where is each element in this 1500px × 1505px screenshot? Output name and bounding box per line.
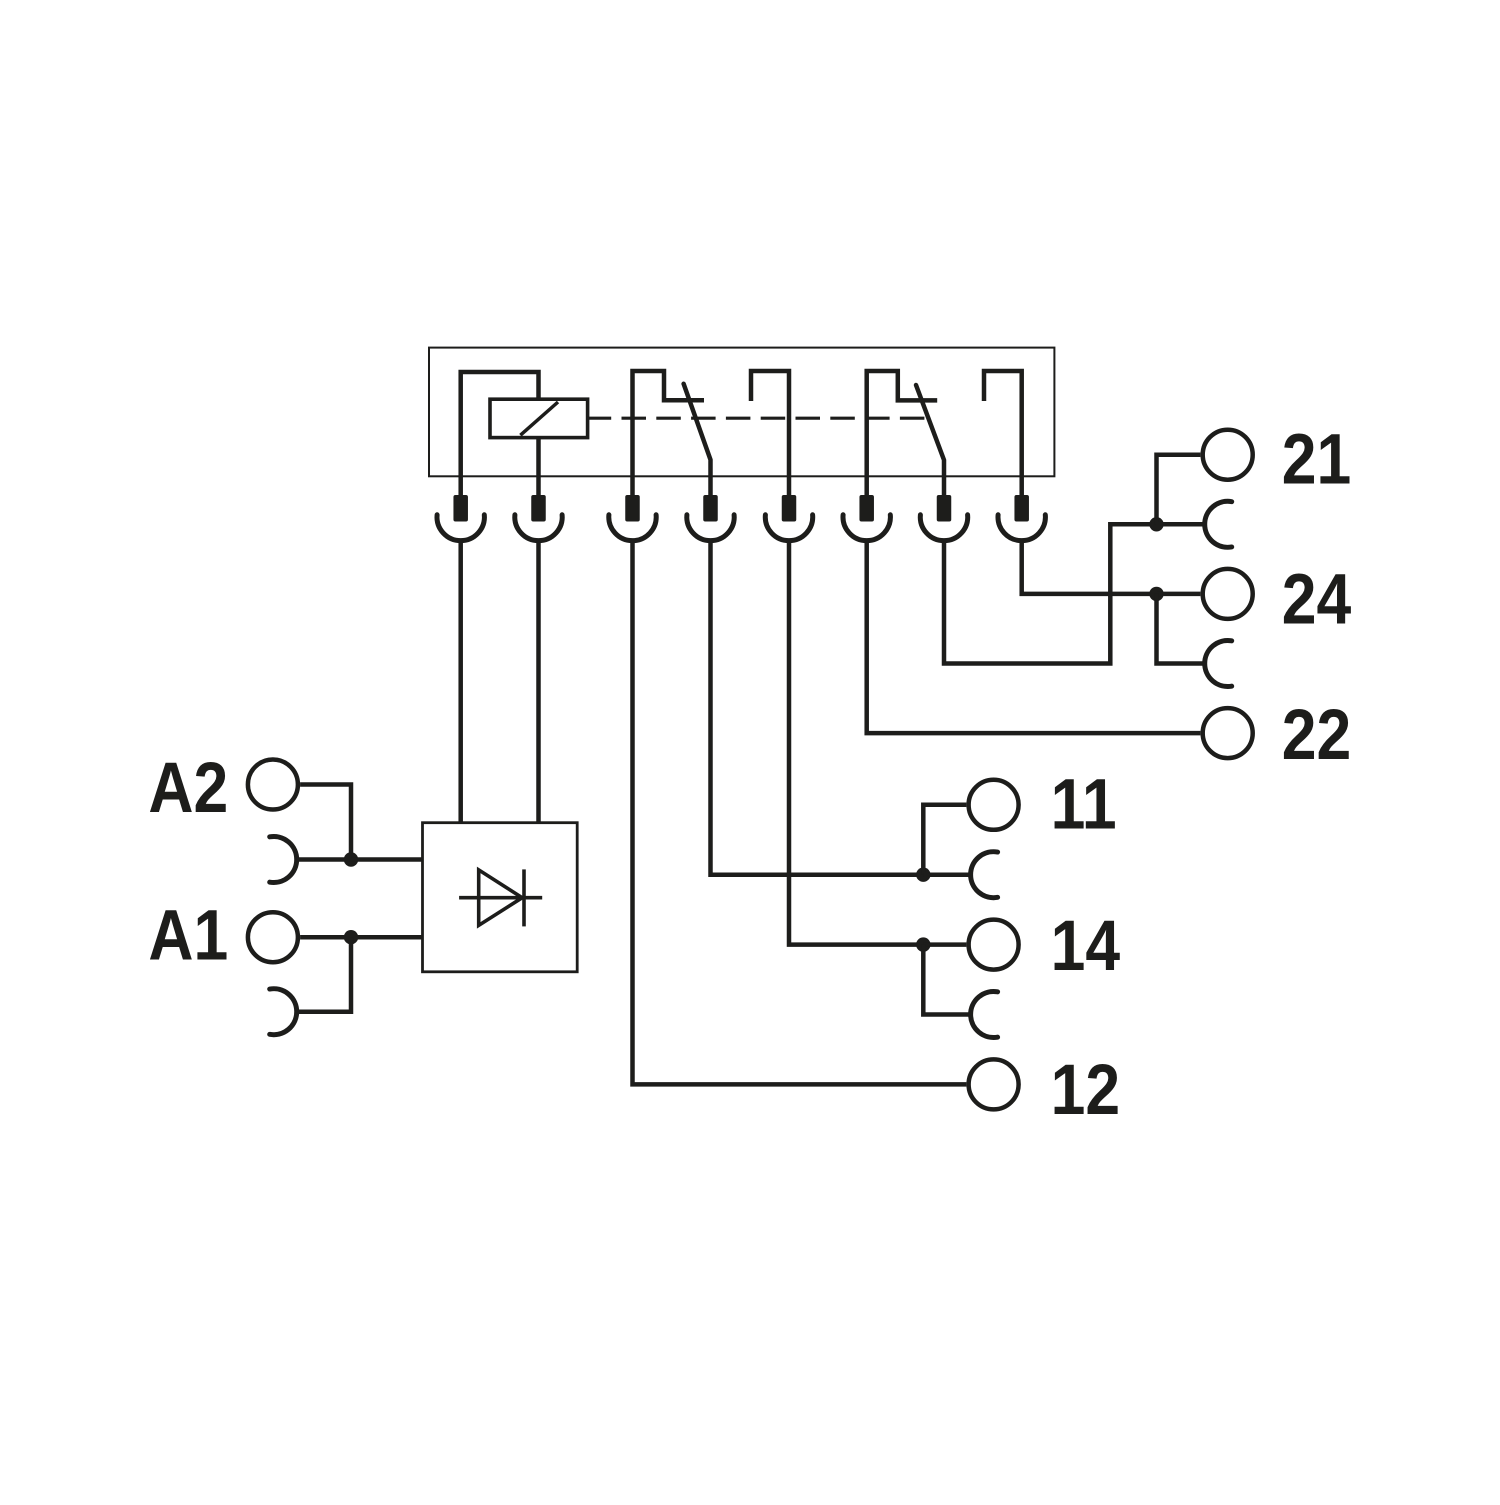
svg-text:A2: A2 xyxy=(148,748,228,828)
rectifier box xyxy=(423,823,578,972)
wire junction to circle 24 xyxy=(1157,592,1201,597)
wire junction to circle 14 xyxy=(923,942,966,947)
wire A1 to rectifier box xyxy=(300,935,422,940)
socket arc below 21 xyxy=(1205,501,1232,547)
wire terminal 7 to node 21 junction xyxy=(944,524,1157,663)
socket arc below 11 xyxy=(971,852,998,898)
terminal 4 plug pin xyxy=(703,495,718,522)
terminal circle A1 xyxy=(248,912,298,962)
terminal circle 24 xyxy=(1203,569,1253,619)
diode D1 triangle xyxy=(479,870,523,926)
wire junction to circle 11 xyxy=(923,805,966,875)
relay enclosure box xyxy=(429,348,1054,477)
terminal 8 socket arc xyxy=(998,515,1045,541)
terminal circle 14 xyxy=(969,920,1019,970)
svg-text:A1: A1 xyxy=(148,896,228,976)
contact pole 1 NO hook (terminal 5) xyxy=(751,371,789,496)
terminal 1 plug pin xyxy=(453,495,468,522)
junction node A1 xyxy=(344,930,358,944)
socket arc below A2 xyxy=(270,837,297,883)
terminal 7 socket arc xyxy=(920,515,967,541)
terminal 2 socket arc xyxy=(515,515,562,541)
terminal circle 12 xyxy=(969,1059,1019,1109)
terminal 8 plug pin xyxy=(1014,495,1028,522)
relay coil xyxy=(490,399,588,437)
terminal 4 socket arc xyxy=(687,515,734,541)
socket arc below A1 xyxy=(270,989,297,1035)
terminal 2 plug pin xyxy=(531,495,546,522)
contact pole 2 common lead (terminal 6) with pivot hook and NC bar xyxy=(867,371,938,496)
wire terminal 5 to node 14 junction xyxy=(789,541,923,945)
junction node 11 xyxy=(916,868,930,882)
terminal circle A2 xyxy=(248,760,298,810)
terminal 6 socket arc xyxy=(843,515,890,541)
socket arc below 24 xyxy=(1205,641,1232,687)
svg-text:11: 11 xyxy=(1051,765,1117,845)
wire junction to socket 14 xyxy=(923,945,970,1015)
junction node A2 xyxy=(344,852,358,866)
terminal circle 22 xyxy=(1203,708,1253,758)
svg-text:21: 21 xyxy=(1282,420,1351,500)
terminal 3 plug pin xyxy=(625,495,640,522)
socket arc below 14 xyxy=(971,992,998,1038)
terminal 3 socket arc xyxy=(609,515,656,541)
diode D1 anode-cathode line xyxy=(459,896,542,900)
svg-text:12: 12 xyxy=(1051,1050,1120,1130)
svg-text:22: 22 xyxy=(1282,695,1351,775)
mechanical linkage (dashed) xyxy=(587,417,928,420)
junction node 21 xyxy=(1149,517,1163,531)
svg-text:24: 24 xyxy=(1282,560,1351,640)
wire terminal 8 to node 24 junction xyxy=(1022,541,1157,594)
svg-text:14: 14 xyxy=(1051,906,1120,986)
wire terminal 2 to rectifier box xyxy=(536,541,541,823)
diode D1 cathode bar xyxy=(522,869,526,926)
wire junction to socket 21 xyxy=(1157,522,1205,527)
contact pole 2 NO hook (terminal 8) xyxy=(984,371,1022,496)
terminal 5 socket arc xyxy=(765,515,812,541)
wire terminal 6 to node 22 xyxy=(867,541,1201,734)
relay coil slash xyxy=(520,402,558,435)
wire terminal 4 to node 11 junction xyxy=(711,541,924,875)
terminal 5 plug pin xyxy=(782,495,797,522)
wire terminal 3 to node 12 xyxy=(633,541,967,1085)
contact pole 2 movable blade (terminal 7) xyxy=(916,385,944,496)
wire junction to socket 24 xyxy=(1157,594,1205,664)
terminal circle 21 xyxy=(1203,430,1253,480)
contact pole 1 common lead (terminal 3) with pivot hook and NC bar xyxy=(633,371,705,496)
junction node 14 xyxy=(916,937,930,951)
coil lead wire to terminal 2 xyxy=(536,438,541,496)
terminal 1 socket arc xyxy=(437,515,484,541)
wire A1 junction to socket A1 xyxy=(297,937,351,1012)
wire terminal 1 to rectifier box xyxy=(458,541,463,823)
coil lead wire to terminal 1 xyxy=(461,372,539,496)
junction node 24 xyxy=(1149,587,1163,601)
contact pole 1 movable blade (terminal 4) xyxy=(684,384,711,496)
wire socket A2 to junction xyxy=(297,857,351,862)
terminal 6 plug pin xyxy=(859,495,874,522)
terminal 7 plug pin xyxy=(937,495,952,522)
wire A2 to junction xyxy=(300,785,351,860)
wire junction to socket 11 xyxy=(923,872,970,877)
terminal circle 11 xyxy=(969,780,1019,830)
wire A2 junction to rectifier box xyxy=(351,857,423,862)
wire junction to circle 21 xyxy=(1157,455,1201,525)
